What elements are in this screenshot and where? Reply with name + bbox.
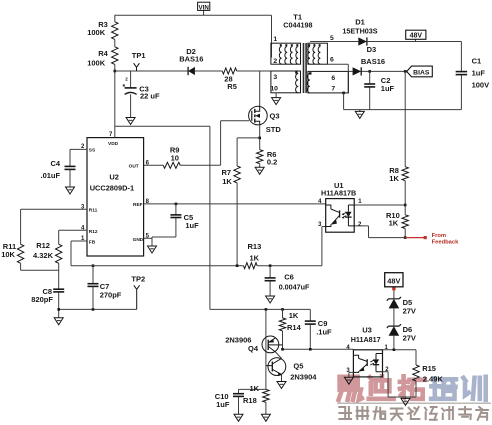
pin 3 label <box>81 204 85 210</box>
svg-text:15ETH03S: 15ETH03S <box>342 27 377 36</box>
pin 7 label <box>331 86 335 93</box>
transistor Q3 <box>249 106 282 134</box>
svg-text:UCC2809D-1: UCC2809D-1 <box>90 184 134 193</box>
svg-text:R14: R14 <box>287 323 302 332</box>
capacitor C8 <box>31 287 64 304</box>
pin 4 label <box>346 345 350 351</box>
wire <box>383 349 417 351</box>
svg-text:10: 10 <box>171 154 179 163</box>
svg-text:10: 10 <box>270 86 278 93</box>
node REF-C5 junction <box>175 203 178 206</box>
resistor R10 <box>386 211 408 228</box>
wire <box>115 126 210 309</box>
resistor R6 <box>257 150 278 167</box>
wire <box>144 203 326 205</box>
svg-text:C4: C4 <box>51 159 61 168</box>
wire <box>265 309 267 389</box>
resistor R12 <box>33 241 62 263</box>
wire <box>275 352 281 359</box>
svg-text:3: 3 <box>273 74 277 81</box>
wire <box>210 308 310 310</box>
pin 8 label <box>146 199 150 205</box>
svg-text:270pF: 270pF <box>100 290 122 299</box>
ground <box>261 414 270 421</box>
wire <box>130 71 132 118</box>
svg-text:1K: 1K <box>250 384 260 393</box>
svg-text:From: From <box>432 233 447 239</box>
wire <box>404 181 406 215</box>
node From Feedback label <box>432 233 460 246</box>
svg-text:BIAS: BIAS <box>413 70 430 77</box>
wire <box>21 209 87 244</box>
watermark band 1 <box>339 376 486 400</box>
resistor R18 <box>243 384 269 405</box>
capacitor C7 <box>88 282 122 300</box>
svg-text:H11A817B: H11A817B <box>321 189 356 198</box>
wire <box>393 308 395 326</box>
node C2 junction <box>368 70 371 73</box>
wire <box>203 10 205 15</box>
node VIN <box>198 2 210 11</box>
svg-text:REF: REF <box>133 202 143 208</box>
resistor R9 <box>163 145 180 168</box>
svg-text:1uF: 1uF <box>185 221 199 230</box>
wire <box>393 336 395 350</box>
ground <box>401 398 410 405</box>
transformer T1 label <box>283 13 312 30</box>
transistor Q4 <box>225 336 282 354</box>
resistor R13 <box>244 242 262 269</box>
pin 1 label <box>358 199 362 205</box>
ground <box>266 296 275 303</box>
svg-text:820pF: 820pF <box>31 295 53 304</box>
pin 3 label <box>346 368 350 374</box>
wire <box>359 110 361 112</box>
svg-text:SS: SS <box>89 148 96 154</box>
transformer T1 primary lower winding <box>271 71 301 93</box>
svg-text:R11: R11 <box>89 208 98 214</box>
svg-text:D3: D3 <box>367 45 377 54</box>
svg-text:100K: 100K <box>87 58 106 67</box>
svg-text:GND: GND <box>133 237 144 243</box>
wire <box>354 226 405 238</box>
transformer core <box>304 43 307 93</box>
svg-text:VIN: VIN <box>199 4 210 11</box>
wire <box>275 93 277 98</box>
wire <box>58 263 60 289</box>
svg-text:48V: 48V <box>387 277 400 286</box>
wire <box>354 204 405 206</box>
pin 2 label <box>385 367 389 373</box>
wire <box>59 292 137 318</box>
svg-text:Q4: Q4 <box>248 344 259 353</box>
svg-text:H11A817: H11A817 <box>351 335 381 344</box>
wire <box>348 70 407 72</box>
diode D1 <box>342 17 377 45</box>
svg-text:1uF: 1uF <box>472 68 486 77</box>
ground <box>255 167 264 174</box>
pin 6 label <box>146 161 150 167</box>
pin 5 label <box>146 234 150 240</box>
pin 2 label <box>358 222 362 228</box>
wire <box>344 109 462 111</box>
svg-text:R4: R4 <box>98 49 108 58</box>
transformer T1 primary upper winding <box>271 43 301 64</box>
svg-text:2: 2 <box>125 76 128 81</box>
ground <box>54 318 63 325</box>
diode D5 <box>387 297 416 316</box>
wire <box>415 39 417 41</box>
pin 10 label <box>270 86 278 93</box>
wire <box>114 39 116 46</box>
wire <box>114 64 116 137</box>
svg-text:22 uF: 22 uF <box>140 92 160 101</box>
svg-text:U2: U2 <box>109 172 119 181</box>
ground <box>66 187 75 194</box>
pin 4 label <box>318 199 322 205</box>
capacitor C3 <box>123 76 161 100</box>
wire <box>367 42 462 110</box>
svg-text:R12: R12 <box>89 229 98 235</box>
transistor Q5 <box>266 358 317 382</box>
ground <box>148 246 157 253</box>
wire <box>310 41 358 43</box>
pin 3 label <box>273 74 277 81</box>
wire <box>21 263 59 270</box>
node 48V terminal <box>392 287 395 290</box>
node C8 junction <box>57 308 60 311</box>
diode D3 <box>353 45 385 76</box>
svg-text:R18: R18 <box>243 396 257 405</box>
svg-text:100V: 100V <box>472 80 490 89</box>
svg-text:C1: C1 <box>472 56 482 65</box>
wire <box>70 149 87 187</box>
wire <box>265 402 267 414</box>
capacitor C6 <box>265 273 310 292</box>
wire <box>349 372 354 377</box>
node R10 junction <box>404 236 407 239</box>
wire <box>114 15 116 22</box>
test point TP1 <box>132 51 146 71</box>
svg-text:2N3904: 2N3904 <box>290 373 317 382</box>
svg-text:BAS16: BAS16 <box>179 55 203 64</box>
capacitor C1 <box>456 56 489 89</box>
svg-text:0.2: 0.2 <box>267 157 277 166</box>
wire <box>239 388 266 390</box>
svg-text:R5: R5 <box>227 82 237 91</box>
svg-text:1uF: 1uF <box>381 84 395 93</box>
wire <box>71 241 244 266</box>
node pin7 junction <box>342 92 345 95</box>
wire <box>269 266 271 296</box>
wire <box>152 204 176 237</box>
node Q4 junction <box>265 308 268 311</box>
diode D2 <box>179 47 203 75</box>
svg-text:48V: 48V <box>410 33 423 40</box>
svg-text:27V: 27V <box>403 307 416 316</box>
wire <box>343 93 345 110</box>
wire <box>404 71 406 166</box>
node zener junction <box>393 348 396 351</box>
wire <box>144 164 221 166</box>
svg-text:D1: D1 <box>355 17 365 26</box>
svg-text:2.49K: 2.49K <box>423 375 444 384</box>
pin 6 lower label <box>331 75 335 82</box>
ground <box>277 382 286 389</box>
wire <box>383 372 417 397</box>
wire <box>115 70 271 72</box>
node R8 junction <box>404 70 407 73</box>
node FB-C7 junction <box>92 264 95 267</box>
resistor R5 <box>222 68 237 91</box>
watermark rule <box>337 402 491 404</box>
svg-text:BAS16: BAS16 <box>361 57 385 66</box>
pin 2 label <box>81 144 85 150</box>
pin 4 label <box>81 225 85 231</box>
svg-text:C044198: C044198 <box>283 20 312 29</box>
svg-text:1K: 1K <box>222 177 232 186</box>
wire feedback (red) <box>405 237 424 239</box>
wire <box>283 348 354 350</box>
node R14-C9 junction <box>281 348 284 351</box>
capacitor C9 <box>305 309 332 349</box>
resistor R7 <box>222 166 241 186</box>
wire <box>415 350 417 365</box>
pin 1 label <box>81 236 85 242</box>
wire <box>59 230 87 244</box>
resistor R14 <box>279 309 301 332</box>
wire <box>257 227 326 266</box>
svg-text:VDD: VDD <box>108 141 119 147</box>
pin 1 label <box>385 345 389 351</box>
node R14 junction <box>281 308 284 311</box>
resistor R4 <box>87 47 118 68</box>
svg-text:1K: 1K <box>389 174 399 183</box>
node C7 junction <box>92 308 95 311</box>
watermark band 2 <box>339 407 488 420</box>
pin 3 label <box>318 222 322 228</box>
wire <box>271 15 273 57</box>
ground <box>355 111 364 118</box>
node source junction <box>258 137 261 140</box>
node R7-FB junction <box>236 264 239 267</box>
ground <box>126 118 135 125</box>
node feedback terminal <box>424 236 427 239</box>
node BIAS flag <box>407 66 433 77</box>
wire <box>393 290 395 299</box>
svg-text:TP2: TP2 <box>131 275 145 284</box>
ground <box>234 414 243 421</box>
wire <box>405 397 407 398</box>
svg-text:C9: C9 <box>318 319 328 328</box>
resistor R8 <box>389 166 408 183</box>
svg-text:Q3: Q3 <box>270 112 280 121</box>
svg-text:.01uF: .01uF <box>41 171 61 180</box>
node pin1 junction <box>404 204 407 207</box>
svg-text:6: 6 <box>331 75 335 82</box>
ground <box>272 98 281 105</box>
svg-text:1K: 1K <box>250 253 260 262</box>
svg-text:R7: R7 <box>222 168 232 177</box>
wire <box>259 125 261 150</box>
svg-text:2: 2 <box>273 58 277 65</box>
ground <box>344 377 353 384</box>
svg-text:TP1: TP1 <box>132 51 146 60</box>
pin 5 label <box>330 35 334 42</box>
svg-text:6: 6 <box>330 57 334 64</box>
svg-text:1K: 1K <box>389 218 399 227</box>
pin 2 label <box>273 58 277 65</box>
wire <box>221 121 249 166</box>
test point TP2 <box>131 275 145 310</box>
wire <box>282 331 284 349</box>
svg-text:10K: 10K <box>1 250 15 259</box>
svg-text:100K: 100K <box>87 28 106 37</box>
node C6 junction <box>269 264 272 267</box>
svg-text:*: * <box>123 84 126 91</box>
wire <box>115 14 272 16</box>
capacitor C2 <box>364 76 394 93</box>
svg-text:R13: R13 <box>248 242 262 251</box>
pin 6 label <box>330 57 334 64</box>
node divider junction <box>114 70 117 73</box>
svg-text:1uF: 1uF <box>216 400 230 409</box>
pin 7 label <box>109 132 113 138</box>
svg-text:4.32K: 4.32K <box>33 251 54 260</box>
svg-text:FB: FB <box>89 239 96 245</box>
svg-text:U3: U3 <box>362 325 372 334</box>
svg-text:STD: STD <box>266 125 282 134</box>
capacitor C4 <box>41 159 76 180</box>
wire <box>369 71 371 109</box>
svg-text:1K: 1K <box>289 311 299 320</box>
capacitor C10 <box>215 389 244 414</box>
wire <box>259 164 261 168</box>
node 48V flag <box>406 30 426 40</box>
op-amp U2 UCC2809D-1 <box>87 138 144 256</box>
wire <box>237 138 260 166</box>
svg-text:.1uF: .1uF <box>316 328 332 337</box>
wire <box>259 71 261 106</box>
wire <box>327 64 348 93</box>
svg-text:OUT: OUT <box>129 164 139 170</box>
wire <box>281 374 283 381</box>
resistor R11 <box>1 242 24 263</box>
node C9 junction <box>309 348 312 351</box>
svg-text:7: 7 <box>331 86 335 93</box>
wire <box>92 266 94 310</box>
resistor R15 <box>413 364 444 383</box>
svg-text:Q5: Q5 <box>293 362 303 371</box>
node 48V flag lower <box>385 273 403 287</box>
diode D6 <box>387 324 416 342</box>
op-amp U3 H11A817 <box>351 325 383 377</box>
svg-text:C6: C6 <box>284 273 294 282</box>
capacitor C5 <box>170 213 199 230</box>
svg-text:R12: R12 <box>36 241 50 250</box>
svg-text:27V: 27V <box>403 333 416 342</box>
wire <box>404 229 406 238</box>
svg-text:0.0047uF: 0.0047uF <box>279 283 310 292</box>
svg-text:Feedback: Feedback <box>432 239 460 245</box>
wire <box>144 237 152 246</box>
transformer T1 secondary upper winding <box>308 43 328 64</box>
resistor R3 <box>87 20 118 39</box>
pin 1 label <box>273 36 277 43</box>
transformer T1 secondary lower winding <box>307 71 348 93</box>
op-amp U1 H11A817B <box>321 181 356 232</box>
svg-text:1: 1 <box>273 36 277 43</box>
wire <box>236 183 238 266</box>
svg-text:R15: R15 <box>422 364 436 373</box>
